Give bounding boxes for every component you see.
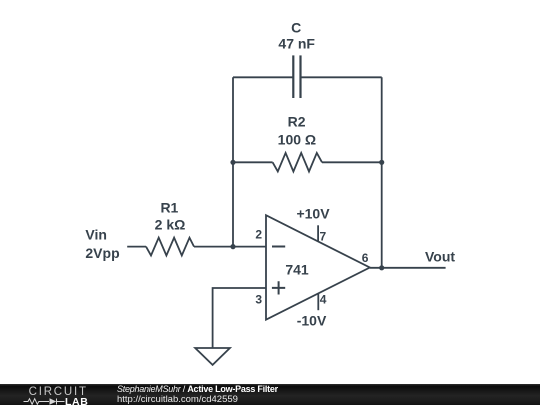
- svg-text:741: 741: [285, 261, 309, 277]
- wire output to Vout: [370, 267, 446, 269]
- resistor R1: [146, 238, 194, 256]
- wire op-amp pin 3 to ground: [213, 288, 266, 348]
- svg-text:2 kΩ: 2 kΩ: [155, 216, 186, 232]
- svg-text:Vin: Vin: [85, 227, 107, 243]
- svg-text:7: 7: [320, 229, 327, 243]
- op-amp U1 741 triangle: [266, 215, 370, 320]
- op-amp pin 7 stub: [317, 225, 319, 241]
- svg-text:3: 3: [255, 293, 262, 307]
- svg-text:6: 6: [362, 251, 369, 265]
- node junction dot R2 left: [230, 160, 235, 165]
- svg-text:2: 2: [255, 228, 262, 242]
- wire R1 to op-amp pin 2: [194, 246, 266, 248]
- svg-text:C: C: [291, 20, 301, 36]
- op-amp plus input sign: [272, 281, 285, 294]
- ground: [195, 348, 230, 365]
- wire capacitor right lead: [301, 76, 382, 78]
- node junction dot R2 right: [379, 160, 384, 165]
- CircuitLab logo: [0, 384, 100, 406]
- node junction dot pin 2: [230, 244, 235, 249]
- wire capacitor left lead: [233, 76, 293, 78]
- node junction dot output: [379, 265, 384, 270]
- svg-text:Vout: Vout: [425, 249, 455, 265]
- svg-text:R2: R2: [288, 114, 306, 130]
- wire R2 left lead: [233, 161, 273, 163]
- op-amp pin 4 stub: [317, 293, 319, 310]
- op-amp minus input sign: [272, 246, 285, 248]
- svg-text:R1: R1: [160, 200, 178, 216]
- svg-text:47 nF: 47 nF: [278, 35, 315, 51]
- wire Vin lead: [127, 246, 146, 248]
- svg-text:+10V: +10V: [296, 206, 330, 222]
- footer bar: [0, 384, 540, 405]
- svg-text:LAB: LAB: [65, 396, 88, 406]
- wire R2 right lead: [322, 161, 382, 163]
- svg-text:2Vpp: 2Vpp: [85, 245, 119, 261]
- svg-text:100 Ω: 100 Ω: [278, 132, 316, 148]
- wire left feedback vertical: [232, 77, 234, 246]
- resistor R2: [273, 153, 322, 172]
- capacitor C plates: [293, 55, 300, 98]
- svg-text:4: 4: [320, 293, 327, 307]
- svg-text:-10V: -10V: [297, 312, 327, 328]
- wire right feedback vertical: [381, 77, 383, 267]
